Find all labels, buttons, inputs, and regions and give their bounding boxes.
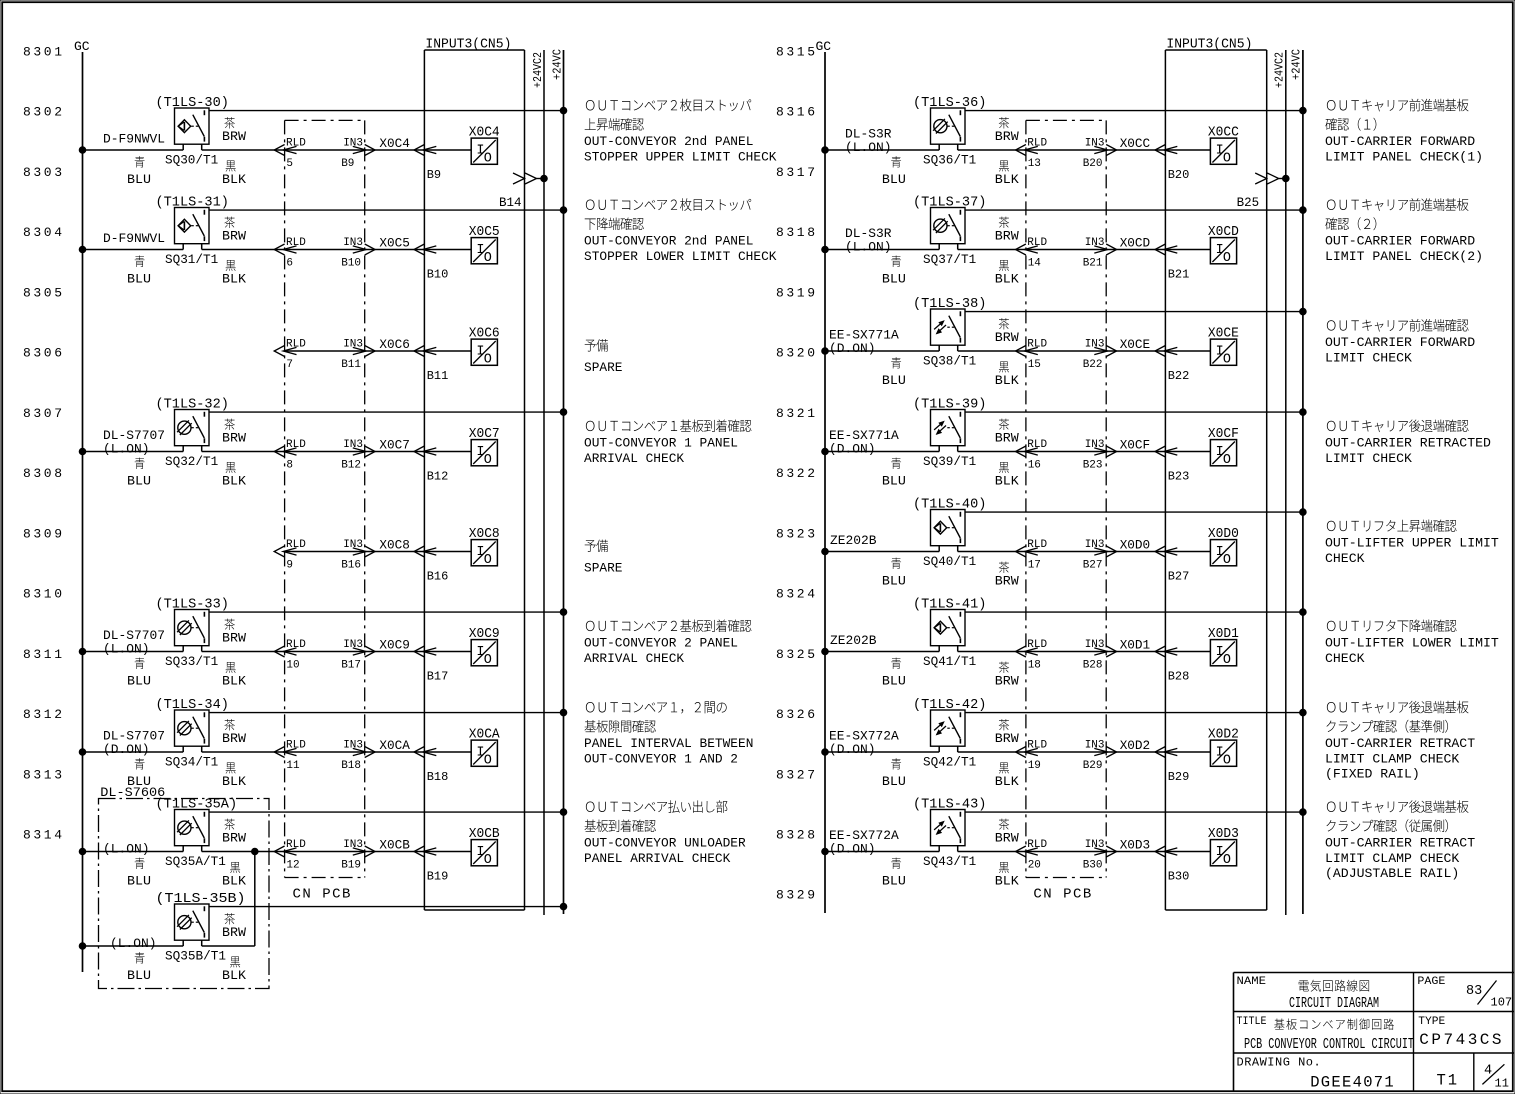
svg-text:LIMIT CHECK: LIMIT CHECK	[1325, 451, 1412, 466]
wire into INPUT3, pin B17	[365, 651, 425, 653]
wire into INPUT3, pin B27	[1106, 551, 1165, 553]
svg-text:X0CF: X0CF	[1120, 438, 1151, 453]
limit switch SQ36 (T1LS-36), model DL-S3R	[931, 108, 966, 144]
svg-text:BLK: BLK	[222, 874, 246, 889]
svg-text:X0D2: X0D2	[1208, 728, 1239, 743]
wire from switch to connector	[201, 646, 203, 652]
wire into INPUT3, pin B9	[365, 149, 425, 151]
svg-text:8322: 8322	[776, 466, 818, 481]
vertical bus GC (right half)	[824, 52, 826, 913]
svg-text:BRW: BRW	[222, 431, 246, 446]
wire from GC bus to switch SQ33/T1	[79, 648, 86, 655]
wire from switch to connector	[201, 144, 203, 150]
svg-text:X0C5: X0C5	[469, 225, 500, 240]
limit switch SQ33 (T1LS-33), model DL-S7707	[175, 610, 210, 646]
svg-text:BRW: BRW	[222, 731, 246, 746]
svg-text:(D.ON): (D.ON)	[829, 442, 876, 457]
svg-text:B9: B9	[427, 168, 441, 182]
svg-text:BLK: BLK	[222, 674, 246, 689]
svg-text:SQ38/T1: SQ38/T1	[923, 354, 976, 369]
svg-text:(L.ON): (L.ON)	[103, 842, 150, 857]
svg-text:SQ31/T1: SQ31/T1	[165, 252, 218, 267]
description text at row y=351	[1327, 319, 1469, 332]
svg-text:STOPPER LOWER LIMIT CHECK: STOPPER LOWER LIMIT CHECK	[584, 249, 777, 264]
wire from switch to connector	[957, 345, 959, 351]
wire switch top to +24VC	[209, 209, 564, 211]
svg-text:B9: B9	[341, 158, 354, 170]
svg-text:RLD: RLD	[1027, 439, 1047, 451]
svg-text:X0C6: X0C6	[379, 337, 410, 352]
svg-text:8304: 8304	[23, 225, 65, 240]
limit switch SQ42 (T1LS-42), model EE-SX772A	[931, 710, 966, 746]
wire from switch to connector	[201, 446, 203, 452]
svg-text:SQ41/T1: SQ41/T1	[923, 654, 976, 669]
input point symbol X0CF (I/O box)	[1210, 440, 1236, 466]
svg-text:CIRCUIT DIAGRAM: CIRCUIT DIAGRAM	[1289, 996, 1379, 1012]
svg-text:SQ32/T1: SQ32/T1	[165, 454, 218, 469]
svg-text:8321: 8321	[776, 406, 818, 421]
svg-text:(T1LS-34): (T1LS-34)	[156, 698, 229, 713]
title block outline	[1234, 972, 1515, 974]
svg-text:(T1LS-42): (T1LS-42)	[913, 698, 986, 713]
svg-text:PCB CONVEYOR CONTROL CIRCUIT: PCB CONVEYOR CONTROL CIRCUIT	[1244, 1037, 1414, 1053]
svg-text:BLK: BLK	[995, 272, 1019, 287]
input point symbol X0CE (I/O box)	[1210, 339, 1236, 365]
svg-text:(L.ON): (L.ON)	[103, 442, 150, 457]
description text at row y=351	[585, 339, 608, 351]
svg-text:X0CE: X0CE	[1120, 337, 1151, 352]
wire through CN PCB connector, pins 6/B10	[285, 249, 365, 251]
svg-text:LIMIT PANEL CHECK(2): LIMIT PANEL CHECK(2)	[1325, 249, 1483, 264]
svg-text:X0D2: X0D2	[1120, 738, 1151, 753]
svg-text:SQ33/T1: SQ33/T1	[165, 654, 218, 669]
svg-text:X0D0: X0D0	[1208, 527, 1239, 542]
svg-text:(L.ON): (L.ON)	[110, 936, 157, 951]
wire switch top to +24VC	[965, 411, 1303, 413]
limit switch SQ34 (T1LS-34), model DL-S7707	[175, 710, 210, 746]
wire through CN PCB connector, pins 19/B29	[1026, 751, 1106, 753]
wire switch top to +24VC	[965, 611, 1303, 613]
svg-text:(T1LS-41): (T1LS-41)	[913, 598, 986, 613]
svg-text:IN3: IN3	[343, 339, 363, 351]
svg-text:LIMIT PANEL CHECK(1): LIMIT PANEL CHECK(1)	[1325, 150, 1483, 165]
svg-text:83: 83	[1466, 984, 1482, 999]
wire into INPUT3, pin B20	[1106, 149, 1165, 151]
wire into INPUT3, pin B16	[365, 551, 425, 553]
input point symbol X0D3 (I/O box)	[1210, 840, 1236, 866]
svg-text:(D.ON): (D.ON)	[103, 742, 150, 757]
limit switch SQ41 (T1LS-41), model ZE202B	[931, 610, 966, 646]
svg-text:BLU: BLU	[127, 874, 151, 889]
svg-text:IN3: IN3	[1085, 138, 1105, 150]
svg-text:10: 10	[286, 660, 299, 672]
svg-text:7: 7	[286, 359, 293, 371]
svg-text:BRW: BRW	[222, 631, 246, 646]
wire from GC bus to switch SQ43/T1	[822, 848, 829, 855]
svg-text:+24VC: +24VC	[1290, 49, 1304, 80]
group box DL-S7606 (dash-dot)	[99, 799, 270, 989]
svg-text:B28: B28	[1168, 670, 1190, 684]
wire switch top to +24VC	[965, 811, 1303, 813]
svg-text:8319: 8319	[776, 285, 818, 300]
svg-text:B21: B21	[1083, 258, 1103, 270]
description text at row y=651.5	[1327, 619, 1457, 632]
svg-text:15: 15	[1028, 359, 1041, 371]
svg-text:18: 18	[1028, 660, 1041, 672]
description text at row y=249.5	[1327, 198, 1469, 211]
svg-text:B16: B16	[341, 560, 361, 572]
svg-text:RLD: RLD	[286, 839, 306, 851]
svg-text:BLU: BLU	[882, 874, 906, 889]
svg-text:SQ43/T1: SQ43/T1	[923, 854, 976, 869]
svg-text:RLD: RLD	[286, 639, 306, 651]
wire from switch to connector	[957, 746, 959, 752]
power line +24VC2 (left half)	[543, 50, 545, 915]
svg-text:B25: B25	[1237, 196, 1260, 210]
svg-text:BLU: BLU	[882, 774, 906, 789]
svg-text:SPARE: SPARE	[584, 360, 623, 375]
svg-text:BLK: BLK	[995, 774, 1019, 789]
svg-text:RLD: RLD	[1027, 237, 1047, 249]
svg-text:8318: 8318	[776, 225, 818, 240]
svg-text:O: O	[1223, 152, 1231, 167]
wire from GC bus to switch SQ34/T1	[79, 749, 86, 756]
svg-text:RLD: RLD	[1027, 539, 1047, 551]
svg-text:(L.ON): (L.ON)	[845, 140, 892, 155]
vertical bus GC (left half)	[82, 52, 84, 972]
wire SQ35B top to +24VC	[209, 906, 564, 908]
svg-text:BLU: BLU	[882, 272, 906, 287]
limit switch SQ30 (T1LS-30), model D-F9NWVL	[175, 108, 210, 144]
wire through CN PCB connector, pins 8/B12	[285, 451, 365, 453]
wire from GC bus to switch SQ36/T1	[822, 147, 829, 154]
svg-text:(T1LS-38): (T1LS-38)	[913, 297, 986, 312]
limit switch SQ40 (T1LS-40), model ZE202B	[931, 510, 966, 546]
svg-text:O: O	[1223, 653, 1231, 668]
svg-text:8326: 8326	[776, 707, 818, 722]
svg-text:SPARE: SPARE	[584, 561, 623, 576]
svg-text:6: 6	[286, 258, 293, 270]
svg-text:OUT-CARRIER FORWARD: OUT-CARRIER FORWARD	[1325, 134, 1475, 149]
svg-text:X0CD: X0CD	[1120, 236, 1151, 251]
svg-text:B30: B30	[1168, 870, 1190, 884]
svg-text:O: O	[484, 754, 492, 769]
description text at row y=150	[586, 99, 751, 112]
svg-text:X0C8: X0C8	[379, 538, 410, 553]
svg-text:OUT-LIFTER UPPER LIMIT: OUT-LIFTER UPPER LIMIT	[1325, 536, 1499, 551]
description text at row y=249.5	[586, 198, 751, 211]
svg-text:SQ42/T1: SQ42/T1	[923, 755, 976, 770]
svg-text:B16: B16	[427, 570, 449, 584]
svg-text:IN3: IN3	[343, 539, 363, 551]
input point symbol X0D0 (I/O box)	[1210, 540, 1236, 566]
svg-text:BLK: BLK	[222, 272, 246, 287]
svg-text:OUT-CONVEYOR 2 PANEL: OUT-CONVEYOR 2 PANEL	[584, 636, 738, 651]
svg-text:SQ40/T1: SQ40/T1	[923, 554, 976, 569]
input point symbol X0D1 (I/O box)	[1210, 640, 1236, 666]
description text at row y=451.5	[1327, 419, 1469, 432]
svg-text:8301: 8301	[23, 45, 65, 60]
svg-text:OUT-CARRIER RETRACT: OUT-CARRIER RETRACT	[1325, 736, 1475, 751]
svg-text:16: 16	[1028, 460, 1041, 472]
limit switch SQ39 (T1LS-39), model EE-SX771A	[931, 410, 966, 446]
wire from GC bus to switch SQ37/T1	[822, 246, 829, 253]
svg-text:IN3: IN3	[343, 639, 363, 651]
wire from GC bus to switch SQ42/T1	[822, 749, 829, 756]
svg-text:8311: 8311	[23, 647, 65, 662]
limit switch SQ32 (T1LS-32), model DL-S7707	[175, 410, 210, 446]
svg-text:B11: B11	[341, 359, 361, 371]
description text at row y=752	[586, 701, 727, 713]
wire from switch to connector	[957, 546, 959, 552]
input point symbol X0CD (I/O box)	[1210, 238, 1236, 264]
svg-text:O: O	[484, 653, 492, 668]
svg-text:BRW: BRW	[222, 129, 246, 144]
svg-text:IN3: IN3	[343, 740, 363, 752]
svg-text:RLD: RLD	[1027, 339, 1047, 351]
svg-text:(D.ON): (D.ON)	[829, 742, 876, 757]
input point symbol X0CA (I/O box)	[471, 740, 497, 766]
svg-text:O: O	[484, 152, 492, 167]
svg-text:B29: B29	[1083, 760, 1103, 772]
wire through CN PCB connector, pins 15/B22	[1026, 350, 1106, 352]
wire into INPUT3, pin B28	[1106, 651, 1165, 653]
svg-text:SQ39/T1: SQ39/T1	[923, 454, 976, 469]
svg-text:RLD: RLD	[286, 539, 306, 551]
svg-text:O: O	[484, 553, 492, 568]
wire from GC bus to switch SQ30/T1	[79, 147, 86, 154]
svg-text:IN3: IN3	[1085, 639, 1105, 651]
description text at row y=551.5	[1327, 519, 1457, 532]
svg-text:BRW: BRW	[995, 831, 1019, 846]
svg-text:X0C7: X0C7	[469, 427, 500, 442]
svg-text:X0C5: X0C5	[379, 236, 410, 251]
wire GC to SQ35B	[79, 943, 86, 950]
svg-text:RLD: RLD	[1027, 839, 1047, 851]
input point symbol X0C4 (I/O box)	[471, 138, 497, 164]
svg-text:8302: 8302	[23, 105, 65, 120]
wire into INPUT3, pin B11	[365, 350, 425, 352]
wire through CN PCB connector, pins 18/B28	[1026, 651, 1106, 653]
svg-text:X0CC: X0CC	[1120, 136, 1151, 151]
svg-text:8324: 8324	[776, 587, 818, 602]
svg-text:(D.ON): (D.ON)	[829, 341, 876, 356]
svg-text:RLD: RLD	[286, 439, 306, 451]
svg-text:(D.ON): (D.ON)	[829, 842, 876, 857]
svg-text:BLU: BLU	[127, 968, 151, 983]
svg-text:B12: B12	[341, 460, 361, 472]
wire into INPUT3, pin B23	[1106, 451, 1165, 453]
svg-text:BLK: BLK	[222, 474, 246, 489]
off-page stub B14 to +24VC2	[513, 173, 525, 184]
svg-text:RLD: RLD	[286, 339, 306, 351]
wire switch top to +24VC	[965, 511, 1303, 513]
svg-text:B30: B30	[1083, 860, 1103, 872]
svg-text:OUT-LIFTER LOWER LIMIT: OUT-LIFTER LOWER LIMIT	[1325, 636, 1499, 651]
svg-text:B29: B29	[1168, 770, 1190, 784]
connector INPUT3(CN5) outline (left half)	[424, 49, 524, 51]
power line +24VC (left half)	[563, 50, 565, 914]
svg-text:(T1LS-31): (T1LS-31)	[156, 196, 229, 211]
svg-text:IN3: IN3	[343, 439, 363, 451]
svg-text:8320: 8320	[776, 346, 818, 361]
svg-text:X0CD: X0CD	[1208, 225, 1239, 240]
svg-text:BLU: BLU	[882, 674, 906, 689]
wire switch top to +24VC	[209, 110, 564, 112]
wire into INPUT3, pin B29	[1106, 751, 1165, 753]
svg-text:8309: 8309	[23, 526, 65, 541]
svg-text:(T1LS-35B): (T1LS-35B)	[156, 892, 246, 907]
svg-text:IN3: IN3	[1085, 740, 1105, 752]
wire SQ35B to junction with SQ35A wire	[201, 940, 203, 946]
svg-text:BLU: BLU	[882, 172, 906, 187]
svg-text:IN3: IN3	[1085, 439, 1105, 451]
description text at row y=551.5	[585, 540, 608, 552]
svg-text:B21: B21	[1168, 268, 1190, 282]
wire from switch to connector	[957, 144, 959, 150]
svg-text:X0CB: X0CB	[379, 838, 410, 853]
svg-text:X0D0: X0D0	[1120, 538, 1151, 553]
svg-text:X0CB: X0CB	[469, 827, 500, 842]
svg-text:D-F9NWVL: D-F9NWVL	[103, 231, 165, 246]
svg-text:B11: B11	[427, 369, 449, 383]
svg-text:PAGE: PAGE	[1417, 976, 1445, 988]
svg-text:CN PCB: CN PCB	[293, 887, 352, 903]
svg-text:SQ37/T1: SQ37/T1	[923, 252, 976, 267]
svg-text:B10: B10	[341, 258, 361, 270]
off-page stub B25 to +24VC2	[1255, 173, 1267, 184]
svg-text:BRW: BRW	[995, 229, 1019, 244]
svg-text:8325: 8325	[776, 647, 818, 662]
svg-text:BRW: BRW	[222, 831, 246, 846]
svg-text:INPUT3(CN5): INPUT3(CN5)	[425, 38, 511, 53]
svg-text:+24VC: +24VC	[550, 49, 564, 80]
svg-text:RLD: RLD	[1027, 740, 1047, 752]
svg-text:STOPPER UPPER LIMIT CHECK: STOPPER UPPER LIMIT CHECK	[584, 150, 777, 165]
svg-text:OUT-CONVEYOR 2nd PANEL: OUT-CONVEYOR 2nd PANEL	[584, 134, 753, 149]
description text at row y=851.5	[586, 800, 727, 813]
svg-text:X0CA: X0CA	[379, 738, 410, 753]
svg-text:O: O	[484, 853, 492, 868]
wire from switch to connector	[957, 244, 959, 250]
input point symbol X0CB (I/O box)	[471, 840, 497, 866]
svg-text:BRW: BRW	[995, 674, 1019, 689]
svg-text:8314: 8314	[23, 827, 65, 842]
wire into INPUT3, pin B19	[365, 851, 425, 853]
wire through CN PCB connector, pins 13/B20	[1026, 149, 1106, 151]
svg-text:O: O	[1223, 553, 1231, 568]
wire from switch to connector	[201, 244, 203, 250]
input point symbol X0C6 (I/O box)	[471, 339, 497, 365]
wire from GC bus to switch SQ32/T1	[79, 448, 86, 455]
svg-text:PANEL INTERVAL BETWEEN: PANEL INTERVAL BETWEEN	[584, 736, 753, 751]
svg-text:8307: 8307	[23, 406, 65, 421]
svg-text:OUT-CONVEYOR 1 AND 2: OUT-CONVEYOR 1 AND 2	[584, 752, 738, 767]
wire from switch to connector	[201, 746, 203, 752]
wire from GC bus to switch SQ38/T1	[822, 348, 829, 355]
input point symbol X0C7 (I/O box)	[471, 440, 497, 466]
svg-text:INPUT3(CN5): INPUT3(CN5)	[1166, 38, 1252, 53]
wire from GC bus to switch SQ31/T1	[79, 246, 86, 253]
svg-text:ARRIVAL CHECK: ARRIVAL CHECK	[584, 451, 684, 466]
limit switch SQ43 (T1LS-43), model EE-SX772A	[931, 810, 966, 846]
svg-text:BRW: BRW	[995, 330, 1019, 345]
svg-text:(T1LS-35A): (T1LS-35A)	[156, 798, 238, 813]
svg-text:12: 12	[286, 860, 299, 872]
svg-text:8303: 8303	[23, 165, 65, 180]
svg-text:X0CE: X0CE	[1208, 327, 1239, 342]
svg-text:BRW: BRW	[222, 229, 246, 244]
svg-text:BLK: BLK	[222, 774, 246, 789]
input point symbol X0CC (I/O box)	[1210, 138, 1236, 164]
svg-text:B22: B22	[1083, 359, 1103, 371]
wire from GC bus to switch SQ35A/T1	[79, 848, 86, 855]
svg-text:107: 107	[1491, 996, 1513, 1010]
svg-text:BRW: BRW	[995, 574, 1019, 589]
svg-text:BLU: BLU	[882, 474, 906, 489]
wire switch top to +24VC	[209, 811, 564, 813]
limit switch SQ37 (T1LS-37), model DL-S3R	[931, 208, 966, 244]
wire from switch to connector	[957, 446, 959, 452]
svg-text:8313: 8313	[23, 767, 65, 782]
svg-text:T1: T1	[1437, 1071, 1460, 1089]
svg-text:(L.ON): (L.ON)	[845, 240, 892, 255]
svg-text:8310: 8310	[23, 587, 65, 602]
svg-text:TITLE: TITLE	[1237, 1016, 1267, 1028]
svg-text:B17: B17	[427, 670, 449, 684]
wire through CN PCB connector, pins 9/B16	[285, 551, 365, 553]
svg-text:X0C6: X0C6	[469, 327, 500, 342]
svg-text:8317: 8317	[776, 165, 818, 180]
svg-text:SQ34/T1: SQ34/T1	[165, 755, 218, 770]
svg-text:RLD: RLD	[286, 237, 306, 249]
svg-text:BLK: BLK	[995, 373, 1019, 388]
svg-text:(T1LS-39): (T1LS-39)	[913, 398, 986, 413]
svg-text:RLD: RLD	[286, 740, 306, 752]
input point symbol X0C9 (I/O box)	[471, 640, 497, 666]
svg-text:B19: B19	[427, 870, 449, 884]
description text at row y=851.5	[1327, 800, 1469, 813]
svg-text:BLK: BLK	[995, 474, 1019, 489]
wire from GC bus to switch SQ40/T1	[822, 548, 829, 555]
svg-text:O: O	[1223, 453, 1231, 468]
svg-text:CN PCB: CN PCB	[1033, 887, 1092, 903]
svg-text:19: 19	[1028, 760, 1041, 772]
svg-text:IN3: IN3	[343, 138, 363, 150]
svg-text:BLK: BLK	[222, 172, 246, 187]
connector CN PCB dashed outline (right half)	[1026, 119, 1106, 121]
svg-text:8306: 8306	[23, 346, 65, 361]
svg-text:X0CA: X0CA	[469, 728, 501, 743]
svg-text:B27: B27	[1168, 570, 1190, 584]
svg-text:OUT-CONVEYOR UNLOADER: OUT-CONVEYOR UNLOADER	[584, 836, 746, 851]
wire through CN PCB connector, pins 17/B27	[1026, 551, 1106, 553]
svg-text:8305: 8305	[23, 285, 65, 300]
svg-text:(T1LS-37): (T1LS-37)	[913, 196, 986, 211]
svg-text:TYPE: TYPE	[1418, 1016, 1445, 1028]
wire from switch to connector	[957, 646, 959, 652]
svg-text:(L.ON): (L.ON)	[103, 642, 150, 657]
svg-text:OUT-CONVEYOR 2nd PANEL: OUT-CONVEYOR 2nd PANEL	[584, 234, 753, 249]
svg-text:O: O	[484, 453, 492, 468]
wire switch top to +24VC	[965, 110, 1303, 112]
wire from GC bus to switch SQ41/T1	[822, 648, 829, 655]
power line +24VC2 (right half)	[1285, 50, 1287, 915]
svg-text:BLU: BLU	[127, 474, 151, 489]
svg-text:B18: B18	[341, 760, 361, 772]
svg-text:(T1LS-32): (T1LS-32)	[156, 398, 229, 413]
svg-text:8323: 8323	[776, 526, 818, 541]
